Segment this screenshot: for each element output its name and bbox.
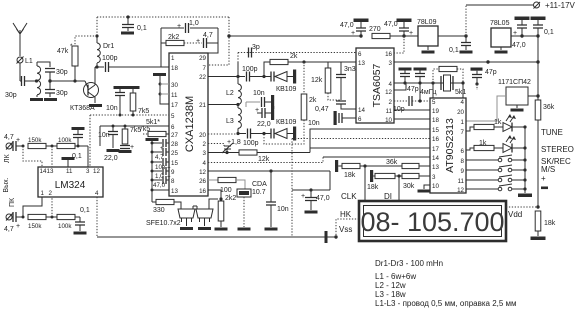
supervisor U6 1171SP42 — [466, 79, 538, 121]
IC U3 TSA6057 — [356, 48, 394, 123]
svg-text:Вых.: Вых. — [3, 177, 10, 192]
regulator U5 78L05 — [490, 20, 538, 54]
button SB1 — [466, 155, 527, 162]
svg-text:ЛК: ЛК — [4, 153, 11, 163]
capacitor 0,1 (78L05 in) — [449, 34, 473, 54]
wire xtal row — [394, 81, 465, 90]
svg-text:+11-17V: +11-17V — [545, 1, 576, 10]
capacitor 100p (osc lower) — [238, 129, 266, 148]
svg-text:30k: 30k — [403, 183, 415, 190]
svg-text:47,0: 47,0 — [153, 182, 166, 189]
antenna connector — [17, 57, 24, 64]
svg-text:5: 5 — [171, 113, 175, 120]
dotted line 3p row — [238, 52, 356, 54]
resistor 270 — [369, 26, 466, 39]
svg-text:0,1: 0,1 — [80, 207, 90, 214]
svg-text:4: 4 — [461, 99, 465, 106]
resistor 1k (LED1) — [466, 119, 503, 131]
resistor 30k (DI row) — [402, 173, 430, 190]
svg-text:Vss: Vss — [339, 225, 352, 234]
svg-text:270: 270 — [369, 26, 381, 33]
svg-text:12k: 12k — [258, 156, 270, 163]
svg-text:100p: 100p — [243, 140, 259, 147]
inductor L3 — [226, 105, 241, 134]
wire to pin 2 — [51, 197, 53, 217]
ground above pin 11 — [62, 157, 75, 167]
bus wire to AT90 pin 14 — [323, 156, 430, 158]
svg-text:LM324: LM324 — [55, 180, 86, 191]
svg-text:6: 6 — [358, 51, 362, 58]
svg-text:30p: 30p — [56, 69, 68, 76]
ground wire from pin 4 — [97, 197, 338, 243]
svg-text:11: 11 — [386, 108, 393, 115]
svg-text:10n: 10n — [155, 164, 166, 171]
capacitor 4,7 pin25 row — [152, 145, 169, 161]
svg-text:11: 11 — [458, 178, 465, 185]
svg-text:18k: 18k — [367, 184, 379, 191]
capacitor 3n3 — [336, 62, 356, 100]
svg-text:4мГц: 4мГц — [420, 89, 437, 96]
capacitor 47,0 pin8 row — [152, 174, 171, 189]
ground AT90 pin 10 — [418, 185, 431, 193]
wire tank to base — [50, 80, 85, 82]
dotted pin 20 row — [208, 133, 238, 135]
inductor L2 — [226, 62, 241, 104]
capacitor 47p (supervisor) — [471, 68, 497, 91]
filter Z1 SFE10.7 — [178, 209, 195, 230]
resistor 7k5 (pin5 upper) — [127, 86, 150, 117]
wire to pin 1 — [23, 197, 42, 217]
node feedback LK — [51, 145, 54, 148]
svg-text:+: + — [167, 174, 171, 181]
svg-text:30p: 30p — [5, 92, 17, 99]
capacitor pin28 row — [152, 139, 169, 147]
svg-text:4: 4 — [389, 81, 393, 88]
capacitor 4,7 (PK in) — [4, 212, 23, 233]
inductor L1 — [25, 58, 41, 97]
capacitor 0,47 — [315, 101, 356, 113]
svg-text:14: 14 — [432, 155, 439, 162]
svg-text:36k: 36k — [386, 159, 398, 166]
resistor 18k (CLK row) — [335, 160, 402, 179]
svg-text:0,1: 0,1 — [449, 47, 459, 54]
resistor 150k (PK) — [28, 214, 57, 230]
svg-text:+: + — [541, 174, 546, 183]
svg-text:1k: 1k — [479, 140, 487, 147]
svg-text:DI: DI — [384, 192, 392, 201]
capacitor 47,0 (rail 1) — [340, 19, 369, 38]
svg-text:47,0: 47,0 — [384, 21, 398, 28]
resistor 12k (TSA) — [311, 62, 341, 100]
capacitor 4,7 (LK in) — [4, 134, 23, 151]
inductor Dr1 — [95, 17, 114, 67]
node LK — [22, 145, 25, 148]
capacitor 22,0 — [255, 106, 274, 128]
capacitor 10n (discriminator) — [265, 171, 289, 231]
button bus ground — [518, 127, 532, 197]
wire L1 top to 30p — [37, 62, 50, 67]
svg-text:2k: 2k — [309, 97, 317, 104]
capacitor 0,1 (5V out) — [531, 17, 554, 38]
svg-text:3: 3 — [203, 150, 207, 157]
svg-text:20: 20 — [457, 109, 464, 116]
capacitor 10p — [393, 83, 430, 113]
svg-text:12k: 12k — [311, 77, 323, 84]
svg-text:30: 30 — [171, 82, 178, 89]
svg-text:10.7: 10.7 — [252, 189, 266, 196]
svg-text:Dr1-Dr3 - 100 mHn: Dr1-Dr3 - 100 mHn — [375, 259, 443, 268]
svg-text:14: 14 — [358, 107, 365, 114]
svg-text:КВ109: КВ109 — [276, 119, 297, 126]
supply input +11-17V — [466, 1, 576, 36]
resistor 47k — [57, 36, 97, 81]
svg-text:150k: 150k — [28, 223, 42, 230]
capacitor 47p (xtal right) — [414, 68, 427, 85]
svg-text:2: 2 — [49, 190, 53, 197]
button SB4 — [466, 184, 527, 191]
svg-text:AT90S2313: AT90S2313 — [444, 118, 456, 173]
resistor 1k (LED2) — [466, 140, 503, 151]
svg-text:11: 11 — [66, 168, 73, 175]
svg-text:12: 12 — [199, 169, 206, 176]
resistor 2k (tuning line) — [264, 62, 317, 144]
dotted pin 4 row — [208, 157, 323, 163]
capacitor 0,1 (LK) — [72, 127, 85, 160]
label Vdd — [506, 207, 538, 219]
svg-text:10: 10 — [432, 183, 439, 190]
svg-text:+: + — [513, 30, 517, 37]
label minus — [541, 187, 548, 190]
resistor 7k5 (pin 27) — [139, 126, 169, 137]
svg-text:+: + — [177, 23, 181, 30]
svg-text:47,0: 47,0 — [512, 42, 526, 49]
capacitor 10n (pin5 upper) — [106, 86, 127, 117]
svg-text:7k5: 7k5 — [138, 108, 149, 115]
svg-text:4: 4 — [95, 190, 99, 197]
wire CLK to display — [364, 166, 366, 201]
capacitor 47,0 (display supply) — [301, 190, 330, 214]
svg-text:+: + — [255, 107, 259, 114]
pin numbers LM324 top — [40, 168, 101, 175]
LED VD1 — [503, 114, 527, 132]
pin numbers AT90 right — [457, 99, 464, 194]
capacitor 100p (osc upper) — [238, 66, 266, 82]
resistor 36k (CLK row) — [386, 159, 430, 169]
wire pin 22 row — [208, 53, 240, 79]
decoupling bus with ground-up bar — [146, 138, 159, 202]
capacitor 10n (TSA pin 6) — [308, 111, 356, 127]
svg-text:16: 16 — [432, 136, 439, 143]
wire DI to display — [398, 176, 400, 201]
microcontroller U7 AT90S2313 — [430, 98, 466, 193]
display module — [359, 201, 506, 241]
svg-text:13: 13 — [171, 188, 178, 195]
svg-text:L2 - 12w: L2 - 12w — [375, 281, 406, 290]
pin numbers LM324 bottom — [41, 190, 100, 197]
svg-text:22: 22 — [199, 74, 206, 81]
svg-text:29: 29 — [199, 55, 206, 62]
svg-text:10n: 10n — [98, 132, 110, 139]
regulator U4 78L09 — [417, 19, 438, 54]
svg-text:ПК: ПК — [9, 197, 16, 207]
LED VD2 — [503, 135, 527, 153]
ground under 0,1 — [121, 32, 134, 35]
svg-text:Vdd: Vdd — [508, 210, 522, 219]
dotted line pin 5 row — [90, 114, 169, 116]
crystal 4MHz — [420, 75, 453, 96]
svg-text:3: 3 — [86, 168, 90, 175]
capacitor 10n (pin6 lower) — [98, 126, 120, 152]
svg-text:3: 3 — [432, 174, 436, 181]
dotted TSA pin16 to rail — [394, 36, 404, 53]
svg-text:+1,8: +1,8 — [227, 139, 241, 146]
node input tank — [35, 79, 38, 82]
svg-text:SFE10.7x2: SFE10.7x2 — [146, 220, 181, 227]
svg-text:12: 12 — [385, 89, 392, 96]
wire pin 6 row — [100, 125, 169, 147]
5V vertical rail — [536, 36, 539, 100]
svg-text:4: 4 — [203, 160, 207, 167]
wire pin 13 row — [152, 189, 169, 191]
capacitor 3p — [249, 44, 260, 58]
capacitor 10n (osc) — [246, 90, 274, 109]
wire TSA pin 10 to AT90 pin 18 — [394, 118, 430, 120]
svg-text:100k: 100k — [58, 137, 72, 144]
svg-text:2k2: 2k2 — [225, 195, 236, 202]
svg-text:1,0: 1,0 — [189, 20, 199, 27]
svg-text:10: 10 — [385, 117, 392, 124]
svg-text:8: 8 — [171, 178, 175, 185]
svg-text:L1: L1 — [25, 58, 33, 65]
svg-text:HK: HK — [340, 210, 352, 219]
bus wire to AT90 pin 17 — [310, 147, 430, 149]
svg-text:10n: 10n — [277, 206, 289, 213]
svg-text:TUNE: TUNE — [541, 128, 563, 137]
wire TSA pin 11 to AT90 pin 19 — [394, 109, 430, 111]
resistor 5k1 (xtal) — [433, 66, 466, 96]
svg-text:2k2: 2k2 — [168, 34, 179, 41]
svg-text:17: 17 — [432, 146, 439, 153]
svg-text:08- 105.700: 08- 105.700 — [360, 207, 504, 237]
resistor 18k (DI row) — [367, 170, 402, 191]
svg-text:150k: 150k — [28, 137, 42, 144]
svg-text:3n3: 3n3 — [344, 66, 356, 73]
filter Z2 SFE10.7 — [193, 199, 218, 230]
svg-text:36k: 36k — [543, 104, 555, 111]
svg-text:13: 13 — [432, 164, 439, 171]
svg-text:100p: 100p — [242, 66, 258, 73]
svg-text:11: 11 — [171, 92, 178, 99]
capacitor 0,1 (supply decoupling) — [122, 15, 147, 32]
transistor KT368A — [70, 67, 99, 112]
svg-text:47p: 47p — [485, 69, 497, 76]
bus dotted to AT90 pin 16 — [292, 138, 430, 140]
svg-text:STEREO: STEREO — [541, 145, 574, 154]
op-amp U2 LM324 — [38, 167, 103, 197]
svg-text:47k: 47k — [57, 48, 69, 55]
wire pin 30 — [160, 83, 169, 85]
capacitor 47p (xtal left) — [399, 68, 419, 94]
resistor 330 — [152, 199, 181, 214]
svg-text:12: 12 — [457, 187, 464, 194]
varicap KB109 lower — [264, 119, 297, 141]
wire pin 11 — [160, 93, 169, 95]
svg-text:47p: 47p — [407, 86, 419, 93]
resistor 7k5 with 22,0 cap (pin6 lower) — [104, 126, 141, 162]
connector LK input — [6, 143, 13, 150]
svg-text:3p: 3p — [252, 44, 260, 51]
svg-text:0,47: 0,47 — [315, 106, 329, 113]
svg-text:22,0: 22,0 — [104, 155, 118, 162]
button SB2 — [466, 165, 527, 172]
svg-text:22,0: 22,0 — [257, 121, 271, 128]
svg-text:47,0: 47,0 — [340, 22, 354, 29]
wire TSA pin3 row to 5V — [394, 60, 538, 63]
node feedback PK — [51, 216, 54, 219]
svg-text:Dr1: Dr1 — [103, 43, 114, 50]
bus wire to AT90 pin 15 — [310, 129, 430, 153]
pin numbers CXA left — [171, 55, 178, 195]
feedback loop wire — [161, 28, 218, 67]
svg-text:15: 15 — [432, 127, 439, 134]
svg-text:TSA6057: TSA6057 — [371, 63, 383, 107]
resistor 100 (pin 26) — [208, 177, 245, 194]
pin numbers AT90 left — [432, 99, 439, 190]
svg-text:1k: 1k — [494, 119, 502, 126]
capacitor 4,7 (feedback) — [196, 32, 218, 48]
pin numbers TSA right — [385, 51, 392, 124]
capacitor 30p upper — [45, 69, 68, 82]
wire pin 12 row — [208, 169, 330, 172]
svg-text:13: 13 — [47, 168, 54, 175]
capacitor 1,0 — [177, 20, 199, 33]
capacitor 10n pin15 row — [152, 158, 169, 171]
antenna W1 — [13, 23, 27, 56]
discriminator CDA10.7 — [237, 181, 267, 231]
capacitor 30p (antenna series) — [5, 76, 36, 99]
svg-text:4,7: 4,7 — [4, 226, 14, 233]
capacitor 100p (IF coupling) — [102, 55, 169, 72]
svg-text:18: 18 — [432, 117, 439, 124]
op-amp U1 CXA1238M — [169, 53, 208, 196]
svg-text:+: + — [196, 38, 200, 45]
supply dotted rail top-left — [97, 16, 229, 18]
wire antenna to input cap — [19, 63, 21, 81]
node tank tap — [48, 79, 51, 82]
svg-text:9: 9 — [461, 168, 465, 175]
svg-text:+: + — [167, 165, 171, 172]
svg-text:10n: 10n — [308, 120, 320, 127]
svg-text:78L09: 78L09 — [417, 19, 437, 26]
svg-text:+: + — [160, 145, 164, 152]
svg-text:L1 - 6w+6w: L1 - 6w+6w — [375, 272, 416, 281]
svg-text:16: 16 — [199, 188, 206, 195]
svg-text:20: 20 — [199, 132, 206, 139]
resistor 12k (pin 3 row) — [208, 150, 310, 163]
svg-text:10n: 10n — [253, 90, 265, 97]
svg-text:1: 1 — [41, 190, 45, 197]
svg-text:9: 9 — [171, 169, 175, 176]
capacitor 47,0 (rail 2) — [384, 19, 413, 38]
wire stereo out row — [292, 139, 330, 237]
capacitor 0,1 (PK) — [74, 207, 90, 235]
button SB3 — [466, 175, 527, 182]
svg-text:M/S: M/S — [541, 165, 555, 174]
resistor 36k (5V divider) — [535, 100, 555, 207]
wire pin 16 to 2k2 — [208, 190, 223, 201]
svg-text:5k1: 5k1 — [455, 89, 466, 96]
svg-text:78L05: 78L05 — [490, 20, 510, 27]
svg-text:100: 100 — [220, 187, 232, 194]
svg-text:19: 19 — [432, 108, 439, 115]
svg-text:+: + — [409, 30, 413, 37]
supply rail 9V — [229, 35, 361, 37]
wire HK dotted — [336, 219, 359, 237]
svg-text:2k: 2k — [290, 53, 298, 60]
trimmer +1,8 — [208, 139, 241, 154]
svg-text:5k1*: 5k1* — [146, 119, 160, 126]
svg-text:2: 2 — [203, 141, 207, 148]
svg-text:7: 7 — [203, 65, 207, 72]
svg-text:4,7: 4,7 — [203, 32, 213, 39]
svg-text:17: 17 — [171, 102, 178, 109]
svg-text:5: 5 — [432, 99, 436, 106]
svg-text:L3 - 18w: L3 - 18w — [375, 290, 406, 299]
svg-text:1: 1 — [171, 55, 175, 62]
svg-text:4,7: 4,7 — [4, 134, 14, 141]
resistor 150k (LK) — [28, 137, 57, 149]
pin numbers CXA right — [199, 55, 206, 195]
svg-text:100p: 100p — [102, 55, 118, 62]
svg-text:28: 28 — [171, 141, 178, 148]
capacitor 30p lower — [45, 81, 68, 97]
svg-text:0,1: 0,1 — [544, 29, 554, 36]
svg-text:15: 15 — [171, 160, 178, 167]
svg-text:47,0: 47,0 — [316, 195, 330, 202]
svg-text:0,1: 0,1 — [137, 25, 147, 32]
svg-text:8: 8 — [461, 158, 465, 165]
node base — [73, 79, 76, 82]
svg-text:L2: L2 — [226, 90, 234, 97]
wire to pin 13 — [51, 146, 53, 167]
svg-text:330: 330 — [153, 207, 165, 214]
svg-text:CDA: CDA — [252, 181, 267, 188]
svg-text:7: 7 — [461, 129, 465, 136]
svg-text:6: 6 — [171, 124, 175, 131]
svg-text:10n: 10n — [106, 105, 118, 112]
svg-text:CLK: CLK — [341, 192, 357, 201]
varicap KB109 upper — [264, 70, 297, 94]
supply dotted drop to pin 7 — [208, 17, 231, 65]
ground under emitter — [89, 104, 102, 107]
connector PK input — [6, 214, 13, 221]
svg-text:18k: 18k — [344, 172, 356, 179]
svg-text:1171СП42: 1171СП42 — [498, 79, 531, 86]
capacitor 47,0 (5V out) — [512, 17, 530, 50]
wire to pin 14 — [23, 146, 42, 167]
svg-text:13: 13 — [358, 60, 365, 67]
svg-text:L3: L3 — [226, 118, 234, 125]
svg-text:2: 2 — [389, 99, 393, 106]
svg-text:7k5: 7k5 — [139, 126, 150, 133]
ground under L1 — [30, 98, 43, 101]
resistor 18k (display) — [531, 205, 556, 240]
svg-text:+: + — [16, 223, 20, 230]
node PK — [22, 216, 25, 219]
svg-text:18k: 18k — [544, 220, 556, 227]
svg-text:3: 3 — [389, 60, 393, 67]
resistor 100k (PK) — [57, 214, 80, 230]
